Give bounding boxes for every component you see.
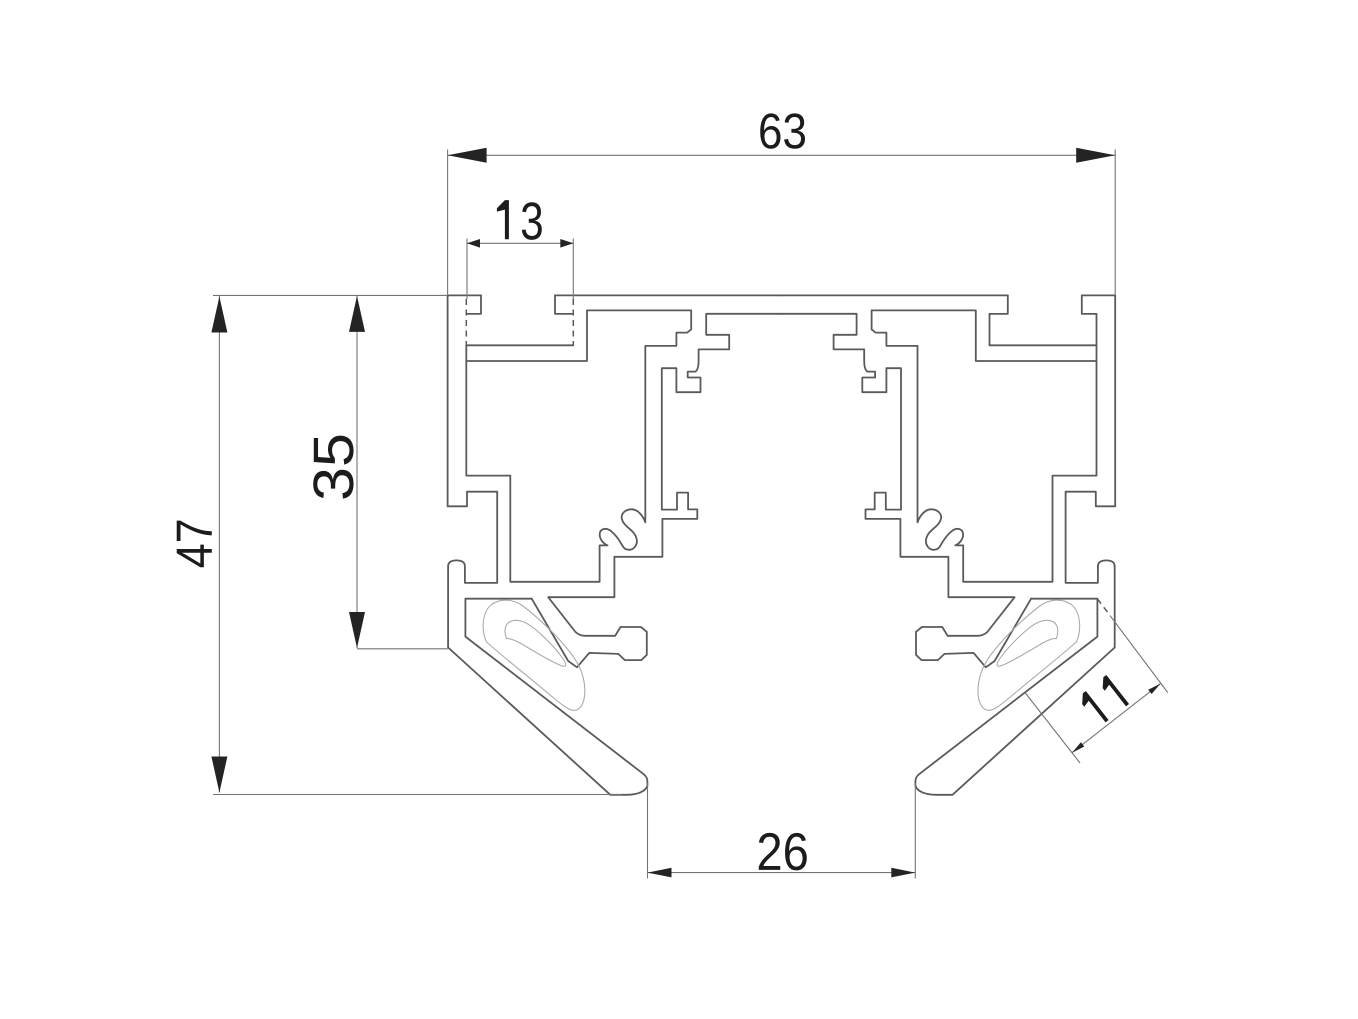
leaf spring outer (483, 600, 585, 710)
dimension 26 left extension line (647, 783, 649, 879)
dimension 11 upper arrowhead (1148, 684, 1160, 694)
dimension 13 left extension line (466, 239, 468, 300)
dimension 13 right arrowhead (560, 239, 573, 248)
dimension 26 right arrowhead (891, 868, 915, 878)
mirrored right half of profile (781, 295, 1115, 794)
outer left edge (447, 295, 449, 506)
dimension 47 value label (177, 521, 212, 568)
dimension 35 bottom arrowhead (349, 612, 365, 648)
dimension 11 lower extension line (1025, 693, 1080, 764)
dimension 35 dimension line (356, 296, 358, 648)
dimension 26 dimension line (648, 872, 916, 874)
dimension 35 top arrowhead (349, 296, 365, 332)
dimension 35 bottom extension line (357, 648, 448, 650)
dimension 13 value label (497, 200, 542, 240)
dimension 47 bottom extension line (213, 794, 622, 796)
center channel wall, tab, floor, latch arm (532, 314, 782, 668)
slot bottom to cavity wall connector (465, 345, 467, 361)
dimension 11 upper extension dashed segment (1098, 599, 1111, 616)
dimension 63 right extension line (1114, 150, 1116, 296)
dimension 63 left arrowhead (448, 148, 487, 163)
dimension 26 right extension line (914, 783, 916, 879)
dimension 26 left arrowhead (648, 868, 672, 878)
dimension 63 right arrowhead (1076, 148, 1115, 163)
right slot side wall (outer) (1096, 314, 1098, 345)
dimension 13 dimension line (467, 242, 573, 244)
dimension 11 upper extension line (1110, 616, 1168, 693)
dimension 13 right extension line (572, 239, 574, 300)
dimension 11 lower arrowhead (1072, 742, 1084, 752)
dimension 35 value label (313, 436, 353, 499)
dimension 13 left arrowhead (467, 239, 480, 248)
slot 13 left lip (466, 295, 481, 314)
top surface center segment (555, 294, 782, 296)
dimension 11 dimension line (1072, 684, 1161, 753)
right slot side wall (inner) (989, 314, 991, 345)
slot 13 bottom (466, 344, 573, 346)
left slot hidden edge (dashed, left) (465, 299, 467, 345)
wing outer face and tip (448, 648, 647, 795)
dimension 26 value label (759, 833, 807, 871)
leaf spring inner (505, 620, 566, 666)
dimension 11 value label (1077, 675, 1129, 727)
dimension 63 value label (760, 113, 805, 148)
cavity loop with serrations (466, 310, 691, 581)
top surface left segment (448, 294, 481, 296)
clip groove and finger (448, 492, 498, 648)
dimension 47 bottom arrowhead (211, 757, 227, 793)
dimension 63 left extension line (447, 150, 449, 296)
slot 13 right lip (555, 295, 573, 314)
dimension 47 top extension line (213, 294, 448, 296)
left slot hidden edge (dashed, right) (572, 299, 574, 345)
wing inner face and pocket wall (465, 599, 647, 786)
dimension 47 dimension line (218, 296, 220, 793)
dimension 47 top arrowhead (211, 297, 227, 333)
profile half (left), mirrored for right (448, 295, 782, 794)
dimension 63 dimension line (448, 154, 1116, 156)
